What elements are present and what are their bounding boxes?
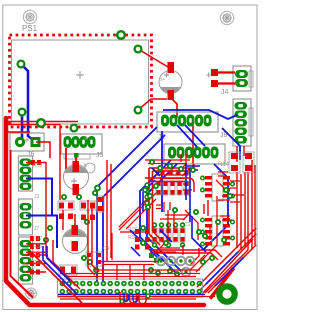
resistor row A (vertical SMDs) — [156, 181, 189, 195]
wire (red J5 to C1) — [66, 148, 76, 170]
resistor R22 — [135, 229, 150, 234]
wire (red bus above header) — [60, 262, 200, 281]
wire (blue bus below header) — [58, 294, 205, 296]
wire (blue J2 top to J8) — [163, 110, 237, 119]
wire (red horizontals above J6) — [4, 122, 78, 125]
resistor R23 — [135, 237, 150, 242]
central trace mesh (red) — [112, 154, 244, 272]
wire (blue chamfer diagonals) — [206, 252, 244, 286]
wire (red C5 bottom to J2) — [171, 98, 177, 118]
power module PS1 courtyard (dashed) — [10, 35, 152, 127]
bottom header box — [58, 279, 203, 297]
svg-text:R14: R14 — [218, 162, 230, 168]
capacitor C5 — [159, 62, 182, 100]
svg-text:J7: J7 — [34, 226, 40, 232]
resistor row B (vertical SMDs) — [152, 228, 185, 242]
pad (small green) — [74, 153, 79, 158]
via V7 — [71, 125, 78, 132]
svg-text:s+: s+ — [160, 77, 166, 83]
resistor R13 — [31, 160, 41, 165]
wire (blue J7 pin2) — [26, 216, 57, 249]
mounting hole H1 — [23, 10, 36, 23]
wire (red resistor nets to right) — [26, 244, 48, 272]
wire (red mid verticals to header) — [88, 160, 111, 275]
pads left of Q row — [149, 253, 154, 258]
via V2 — [19, 109, 26, 116]
transistor pads Q row — [157, 257, 195, 277]
connector J7 (3-pad) — [19, 199, 33, 235]
wire (blue J3 pin3) — [26, 179, 52, 217]
wire (red to C5 bottom) — [138, 99, 167, 110]
resistor pair mid row 2 — [59, 214, 95, 221]
via V3 — [37, 119, 45, 127]
svg-text:R17: R17 — [33, 236, 42, 242]
resistor pair top right — [229, 152, 254, 173]
IC U4 — [201, 216, 235, 246]
small gray labels for texture — [33, 77, 191, 266]
via V1 — [18, 61, 25, 68]
wire (red chamfer diagonals) — [197, 228, 256, 293]
horizontal SMD pair above row A — [160, 170, 189, 175]
bottom header pads row 1 — [60, 282, 201, 286]
via at serpentine — [120, 300, 124, 304]
resistor R19 — [30, 253, 40, 258]
connector J4 — [221, 66, 253, 96]
small parts between caps — [58, 163, 104, 212]
red hook top of cluster — [145, 178, 194, 192]
connector J1 — [164, 144, 225, 164]
board outline — [3, 5, 257, 310]
connector J3 (4-pad) — [19, 156, 33, 191]
resistor R21 — [30, 270, 40, 275]
wire (red J2 to J1) — [192, 122, 194, 170]
bottom header pads row 2 — [60, 290, 201, 294]
wire (blue, PS1 area) — [21, 64, 33, 140]
wire (blue J2 to J1 diagonals) — [177, 125, 205, 147]
blue serpentine under header — [124, 294, 137, 302]
IC U2 — [201, 174, 235, 201]
wire (red to C5 top) — [138, 49, 168, 67]
target pad (big green donut) — [219, 286, 234, 301]
wire (red stub to C2 top) — [74, 214, 76, 226]
wire (red right-side bundle) — [150, 146, 255, 265]
connector J6 — [10, 133, 44, 159]
wire (red left column verticals) — [46, 124, 80, 289]
svg-text:J4: J4 — [221, 89, 229, 96]
wire (blue J1 right to J8 bottom) — [222, 128, 240, 160]
svg-text:J6: J6 — [27, 152, 35, 159]
diode D2 below C2 — [59, 265, 77, 275]
scattered vias center — [44, 160, 232, 264]
wire (red bus below header) — [58, 297, 215, 300]
svg-text:R18: R18 — [33, 244, 42, 250]
via column left of cluster — [145, 183, 149, 205]
wire (blue stub via to J6) — [21, 112, 24, 140]
power module PS1 body outline — [12, 40, 149, 124]
resistor R17 — [30, 236, 40, 241]
svg-text:J3: J3 — [34, 194, 40, 200]
vias row above caps — [62, 191, 98, 272]
PS1 origin cross — [76, 71, 84, 79]
connector J9 (5-pad) — [19, 237, 33, 284]
red loop around cluster — [149, 168, 193, 245]
wire (blue diagonals main bundle) — [97, 127, 182, 281]
connector J5 — [61, 134, 104, 159]
red serpentine under header — [120, 292, 146, 304]
svg-text:PS1: PS1 — [22, 24, 38, 33]
central trace mesh (blue) — [130, 163, 206, 260]
thick red power trace left/bottom — [6, 118, 204, 305]
wire (blue right side) — [203, 164, 228, 250]
IC U5 (small, above header) — [86, 252, 102, 266]
mounting hole H3 — [26, 288, 37, 299]
thick red chamfer segment — [211, 269, 233, 298]
connector J8 — [220, 99, 253, 146]
capacitor C4 (SMD by J4) — [206, 69, 235, 87]
resistor R20 — [30, 261, 40, 266]
wire (blue left fan) — [43, 246, 77, 294]
via V5 — [135, 46, 142, 53]
via V4 on courtyard top — [117, 31, 125, 39]
connector J2 — [157, 112, 218, 141]
wire (red R13 net) — [26, 163, 46, 191]
resistor R24 — [135, 245, 150, 250]
vias flanking row B — [153, 223, 185, 247]
wire (red J6 pad right) — [7, 132, 50, 158]
capacitor C2 — [63, 225, 88, 254]
resistor R18 — [30, 244, 40, 249]
via on blue bend — [95, 186, 100, 191]
wire (red bottom-left fan) — [32, 253, 82, 303]
mounting hole H2 — [220, 11, 233, 24]
via V6 — [135, 107, 142, 114]
capacitor C1 — [64, 161, 89, 195]
svg-text:R13: R13 — [33, 163, 42, 169]
svg-text:J5: J5 — [96, 152, 104, 159]
vias below Q row — [149, 268, 179, 276]
